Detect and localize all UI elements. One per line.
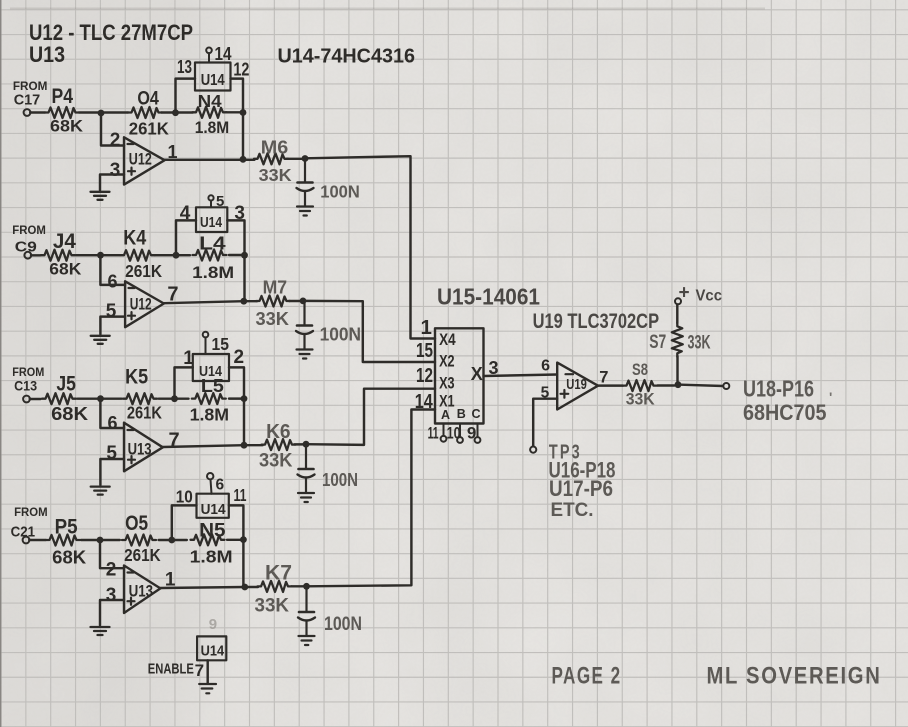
svg-text:6: 6 bbox=[541, 358, 550, 375]
svg-text:4: 4 bbox=[180, 203, 191, 224]
svg-text:U13: U13 bbox=[129, 583, 154, 601]
svg-text:261K: 261K bbox=[125, 261, 162, 281]
svg-text:X3: X3 bbox=[439, 375, 455, 393]
svg-text:U12: U12 bbox=[129, 151, 152, 169]
svg-text:3: 3 bbox=[110, 160, 121, 181]
svg-text:33K: 33K bbox=[256, 308, 290, 329]
svg-text:261K: 261K bbox=[127, 403, 162, 423]
svg-text:12: 12 bbox=[233, 59, 249, 80]
svg-text:ENABLE: ENABLE bbox=[148, 662, 194, 678]
svg-text:M7: M7 bbox=[263, 277, 288, 298]
svg-text:7: 7 bbox=[195, 661, 204, 680]
svg-text:5: 5 bbox=[541, 385, 550, 402]
svg-text:U14: U14 bbox=[201, 643, 225, 660]
svg-text:2: 2 bbox=[110, 130, 121, 151]
svg-text:1: 1 bbox=[421, 316, 432, 339]
svg-text:C21: C21 bbox=[11, 525, 35, 541]
svg-text:261K: 261K bbox=[124, 545, 161, 565]
svg-text:9: 9 bbox=[209, 616, 217, 633]
svg-text:U13: U13 bbox=[29, 42, 65, 67]
svg-text:5: 5 bbox=[106, 443, 117, 464]
svg-text:68K: 68K bbox=[50, 117, 84, 136]
svg-text:P5: P5 bbox=[55, 516, 78, 539]
svg-text:14: 14 bbox=[415, 390, 433, 413]
svg-text:U19 TLC3702CP: U19 TLC3702CP bbox=[533, 310, 660, 333]
svg-text:100N: 100N bbox=[322, 469, 358, 490]
svg-text:PAGE 2: PAGE 2 bbox=[552, 663, 622, 690]
svg-text:J4: J4 bbox=[53, 230, 76, 253]
svg-text:FROM: FROM bbox=[13, 79, 48, 93]
svg-text:33K: 33K bbox=[255, 595, 290, 617]
svg-text:1.8M: 1.8M bbox=[195, 119, 230, 137]
svg-text:68K: 68K bbox=[51, 403, 89, 424]
svg-text:U14: U14 bbox=[201, 501, 227, 518]
svg-text:1.8M: 1.8M bbox=[192, 263, 234, 282]
svg-text:A: A bbox=[441, 408, 450, 422]
svg-text:': ' bbox=[829, 389, 832, 405]
svg-text:FROM: FROM bbox=[14, 505, 48, 519]
svg-text:O5: O5 bbox=[125, 512, 148, 535]
svg-text:U14: U14 bbox=[201, 72, 225, 89]
svg-text:9: 9 bbox=[467, 424, 476, 443]
svg-text:3: 3 bbox=[489, 358, 499, 378]
svg-text:3: 3 bbox=[106, 585, 117, 606]
svg-text:6: 6 bbox=[108, 413, 118, 433]
svg-text:P4: P4 bbox=[52, 85, 74, 108]
svg-text:3: 3 bbox=[234, 203, 245, 224]
svg-text:C9: C9 bbox=[15, 240, 37, 256]
svg-text:100N: 100N bbox=[324, 614, 362, 635]
svg-text:X: X bbox=[471, 364, 483, 384]
svg-text:5: 5 bbox=[216, 193, 224, 210]
svg-text:O4: O4 bbox=[137, 88, 159, 110]
svg-text:FROM: FROM bbox=[12, 223, 46, 237]
svg-text:14: 14 bbox=[215, 44, 232, 64]
svg-text:U12: U12 bbox=[130, 296, 152, 314]
svg-text:7: 7 bbox=[167, 284, 178, 306]
svg-text:2: 2 bbox=[234, 347, 245, 368]
svg-text:68HC705: 68HC705 bbox=[743, 400, 827, 425]
svg-text:7: 7 bbox=[599, 369, 608, 387]
svg-text:C17: C17 bbox=[14, 93, 41, 109]
svg-text:10: 10 bbox=[447, 424, 461, 443]
svg-text:K4: K4 bbox=[123, 227, 146, 250]
svg-text:U17-P6: U17-P6 bbox=[549, 476, 613, 501]
svg-text:15: 15 bbox=[212, 334, 230, 354]
svg-text:N5: N5 bbox=[199, 521, 226, 542]
svg-text:1: 1 bbox=[165, 570, 176, 591]
svg-text:100N: 100N bbox=[320, 324, 362, 345]
svg-text:N4: N4 bbox=[198, 91, 222, 111]
svg-text:K7: K7 bbox=[265, 562, 292, 585]
svg-text:U13: U13 bbox=[128, 441, 152, 459]
svg-text:2: 2 bbox=[106, 560, 117, 581]
svg-text:U14-74HC4316: U14-74HC4316 bbox=[278, 46, 416, 68]
svg-text:Vcc: Vcc bbox=[696, 288, 723, 305]
svg-text:6: 6 bbox=[108, 272, 118, 292]
svg-text:11: 11 bbox=[234, 485, 247, 505]
svg-text:C: C bbox=[472, 407, 481, 421]
svg-text:M6: M6 bbox=[261, 137, 289, 158]
svg-text:U14: U14 bbox=[200, 215, 222, 231]
svg-text:L5: L5 bbox=[201, 375, 224, 396]
svg-text:1.8M: 1.8M bbox=[190, 405, 230, 425]
svg-text:12: 12 bbox=[416, 364, 433, 387]
svg-text:C13: C13 bbox=[14, 378, 37, 394]
svg-text:33K: 33K bbox=[259, 451, 293, 472]
svg-text:K6: K6 bbox=[266, 420, 291, 443]
svg-text:1: 1 bbox=[183, 348, 194, 369]
svg-text:X4: X4 bbox=[439, 331, 456, 349]
svg-text:7: 7 bbox=[169, 430, 180, 452]
svg-text:ETC.: ETC. bbox=[551, 499, 594, 521]
svg-text:ML SOVEREIGN: ML SOVEREIGN bbox=[707, 663, 882, 690]
svg-text:J5: J5 bbox=[56, 373, 76, 396]
svg-text:U18-P16: U18-P16 bbox=[743, 376, 814, 402]
svg-text:1: 1 bbox=[168, 142, 178, 162]
svg-text:13: 13 bbox=[177, 57, 192, 77]
svg-text:S8: S8 bbox=[632, 361, 648, 379]
svg-text:68K: 68K bbox=[52, 547, 87, 568]
svg-text:100N: 100N bbox=[320, 182, 360, 202]
svg-text:5: 5 bbox=[106, 301, 117, 322]
svg-text:+: + bbox=[679, 283, 690, 304]
svg-text:K5: K5 bbox=[125, 366, 148, 389]
svg-text:1.8M: 1.8M bbox=[190, 547, 233, 567]
svg-text:15: 15 bbox=[416, 339, 433, 362]
svg-text:X2: X2 bbox=[439, 352, 455, 370]
svg-text:11: 11 bbox=[428, 424, 439, 443]
svg-text:S7: S7 bbox=[649, 332, 666, 353]
svg-text:68K: 68K bbox=[49, 260, 82, 279]
svg-text:L4: L4 bbox=[199, 234, 226, 254]
svg-text:261K: 261K bbox=[129, 119, 169, 139]
svg-text:10: 10 bbox=[176, 487, 193, 507]
svg-text:33K: 33K bbox=[259, 165, 292, 185]
svg-text:6: 6 bbox=[216, 477, 225, 494]
svg-text:33K: 33K bbox=[626, 391, 655, 409]
svg-text:B: B bbox=[457, 407, 466, 421]
svg-text:U15-14061: U15-14061 bbox=[437, 284, 540, 310]
svg-text:33K: 33K bbox=[688, 333, 711, 354]
svg-text:U19: U19 bbox=[566, 376, 587, 393]
